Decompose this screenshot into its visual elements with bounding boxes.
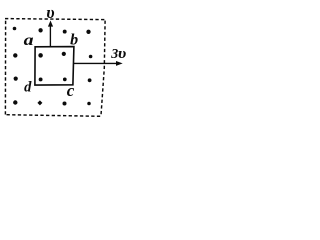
field dot B2	[38, 28, 42, 32]
field dot B15	[63, 102, 67, 106]
svg-text:υ: υ	[118, 46, 127, 62]
field dot B5	[13, 53, 17, 57]
field dot B11 (inside loop)	[63, 78, 67, 82]
dashed field-region border: bottom	[7, 115, 102, 117]
dashed field-region border: right	[101, 21, 105, 117]
svg-text:d: d	[24, 80, 32, 96]
field dot B16	[87, 102, 91, 106]
svg-text:a: a	[24, 31, 34, 48]
field dot B13	[13, 100, 17, 104]
corner label a	[24, 31, 34, 48]
field dot B1	[13, 27, 17, 31]
field dot B7 (inside loop)	[62, 52, 66, 56]
field dot B9	[14, 77, 18, 81]
svg-text:υ: υ	[46, 3, 54, 22]
field dot B10 (inside loop)	[39, 77, 43, 81]
svg-text:b: b	[70, 32, 78, 49]
velocity arrow v head	[48, 21, 53, 27]
dashed field-region border: top	[5, 19, 105, 20]
svg-text:c: c	[67, 81, 75, 100]
field dot B8	[89, 55, 93, 59]
field dot B12	[88, 78, 92, 82]
dashed field-region border: left	[4, 21, 6, 115]
velocity arrow v (upward) shaft	[49, 25, 51, 46]
velocity arrow 3v head	[116, 61, 123, 66]
field dot B4	[86, 30, 90, 34]
field dot B3	[63, 30, 67, 34]
field dot B6 (inside loop)	[38, 53, 43, 58]
field dot B14 (diamond-shaped in scan)	[37, 100, 42, 105]
square conducting loop abcd	[35, 47, 74, 86]
velocity arrow 3v (rightward) shaft	[74, 62, 117, 64]
